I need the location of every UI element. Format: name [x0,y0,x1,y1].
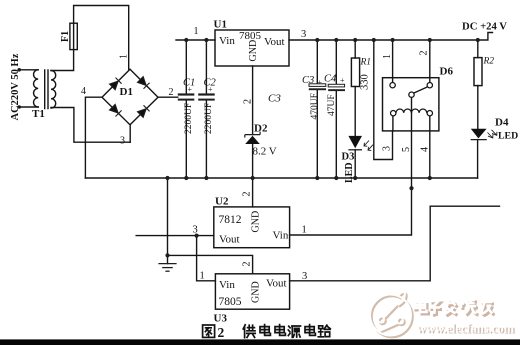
svg-text:D4: D4 [495,117,509,129]
svg-text:7812: 7812 [219,214,242,226]
svg-text:4: 4 [81,86,86,97]
wire U3 Vout output path [290,206,500,281]
wire primary bottom lead [19,106,38,108]
wire bridge node 4 to ground rail [85,97,102,178]
svg-text:F1: F1 [60,31,71,42]
transformer T1 primary winding [34,70,39,107]
电 [416,302,429,315]
wire C3 down to ground rail [316,90,318,178]
wire relay pin 4 down to ground rail [429,116,431,178]
resistor R1 [351,58,359,87]
wire into U1 Vin [176,39,215,41]
capacitor C3 plates [309,84,326,90]
ground rail [85,177,477,179]
bridge rectifier D1 diamond [102,69,158,125]
svg-text:1: 1 [194,26,199,37]
svg-text:1: 1 [119,54,130,59]
node AC input terminal bottom [17,105,21,109]
svg-text:D3: D3 [342,152,355,163]
svg-text:Vin: Vin [219,35,235,47]
watermark text 电子发烧友 (drawn strokes) [414,298,495,316]
capacitor C1 plates [178,93,195,100]
wire U2 Vout to U3 Vin [197,236,216,281]
svg-text:DC +24 V: DC +24 V [462,21,507,33]
svg-text:U1: U1 [214,19,227,31]
svg-text:GND: GND [251,281,262,303]
svg-text:3: 3 [382,146,393,151]
fuse F1 [70,23,77,49]
svg-text:D6: D6 [440,66,454,78]
wire relay pin3 bypass loop to rail [374,40,393,160]
svg-text:+: + [318,78,323,87]
svg-text:LED: LED [498,131,518,142]
char 图 [203,325,215,337]
transformer T1 secondary winding [51,71,56,109]
svg-text:GND: GND [251,211,262,233]
svg-text:3: 3 [302,271,307,282]
svg-text:1: 1 [200,271,205,282]
svg-text:U2: U2 [215,196,229,208]
svg-text:1: 1 [302,225,307,236]
wire bridge node 2 to C1 [158,96,178,98]
regulator U2 7812 box [214,207,290,248]
char 供 [243,325,255,338]
svg-text:2: 2 [169,87,174,98]
wire U2 Vout output [136,235,214,237]
svg-text:+: + [208,85,213,94]
svg-text:AC220V 50 Hz: AC220V 50 Hz [10,53,21,120]
resistor R2 [474,58,482,86]
svg-text:R2: R2 [483,57,495,67]
svg-text:2200UF: 2200UF [184,103,194,134]
svg-text:3: 3 [193,225,198,236]
relay D6 box [383,78,439,131]
bridge diodes D1 [109,76,149,117]
wire C3 riser up [316,40,318,84]
diode D1 top-right 1 to 2 [137,76,149,88]
wire C2 riser up [205,40,207,93]
svg-text:T1: T1 [32,108,45,120]
wire C4 riser up [335,40,337,84]
diode D1 top-left 4 to 1 [109,78,121,90]
wire secondary bottom to bridge node 3 [51,108,130,143]
烧 [461,300,479,316]
svg-text:330: 330 [360,74,371,90]
svg-text:3: 3 [120,136,125,147]
char 源 [288,326,300,337]
wire C2 down to ground rail [205,101,207,178]
svg-text:7805: 7805 [219,296,242,308]
LED D3 [348,136,373,151]
svg-text:2: 2 [419,51,430,56]
wire ground drop [167,178,169,264]
svg-text:Vout: Vout [264,36,285,48]
char 电 [275,325,285,336]
svg-text:D2: D2 [254,123,268,135]
svg-text:4: 4 [420,147,431,152]
op-amp U1 regulator 7805 box [215,30,289,66]
regulator U3 7805 box [215,274,289,309]
relay D6 internals [390,83,433,116]
svg-text:470UF: 470UF [310,93,320,119]
svg-text:2200UF: 2200UF [204,103,214,134]
diode D1 bottom-left 4 to 3 [109,104,121,116]
wire bridge bottom vertex drop [129,125,131,142]
wire output rail DC +24V [289,33,493,41]
svg-text:U3: U3 [214,313,228,325]
wire rail to R2 [477,40,479,58]
svg-text:www.elecfans.com: www.elecfans.com [417,321,515,335]
watermark logo elecfans [370,292,413,337]
zener diode D2 [245,132,260,144]
子 [431,303,443,316]
wire R2 to D4 [477,86,479,129]
transformer T1 core [45,70,48,109]
svg-text:Vout: Vout [219,234,240,246]
wire primary top lead [19,69,38,71]
wire ground to U3 pin 2 [168,255,253,273]
svg-text:8.2 V: 8.2 V [253,146,277,158]
ground symbol [158,264,176,272]
char 路 [318,325,330,337]
wire D3 to ground rail [354,150,356,178]
svg-text:47UF: 47UF [327,94,337,116]
wire D4 riser from ground rail [477,140,479,178]
wire C4 down to ground rail [335,91,337,178]
capacitor C2 plates [198,93,215,100]
char 电 [305,325,315,336]
svg-text:Vin: Vin [219,279,235,291]
wire relay pin 1 from rail [392,40,394,83]
svg-text:+: + [340,76,345,85]
svg-text:Vout: Vout [266,278,287,290]
svg-text:2: 2 [243,99,254,104]
caption 图 2 供电电源电路 (drawn strokes) [203,325,331,338]
svg-text:GND: GND [248,40,259,62]
LED D4 [471,129,497,140]
wire through fuse up and top loop to bridge node 1 [74,6,129,70]
wire secondary top to fuse [51,50,74,71]
wire C1 riser up [185,40,187,93]
wire relay pin 5 common down to U2 Vin [290,97,412,235]
svg-text:LED: LED [344,162,355,183]
svg-text:1: 1 [382,54,393,59]
wire U1 pin2 down to zener D2 [252,66,254,135]
svg-text:2: 2 [218,325,225,340]
char 电 [260,325,270,336]
svg-text:C3: C3 [302,75,314,86]
svg-text:3: 3 [301,29,306,40]
svg-text:C3: C3 [268,93,281,105]
svg-text:D1: D1 [120,86,133,98]
node AC input terminal top [17,68,21,72]
svg-text:5: 5 [401,147,412,152]
wire R1 to D3 [354,87,356,136]
svg-text:+: + [188,85,193,94]
black bar bottom [0,339,520,345]
svg-text:C4: C4 [324,74,337,85]
capacitor C4 plates [328,84,345,91]
wire rail to R1 [354,40,356,58]
diode D1 bottom-right 3 to 2 [137,105,149,117]
svg-text:2: 2 [242,192,253,197]
wire D2 to ground rail and U2 pin 2 riser [252,144,254,207]
watermark url www.elecfans.com [417,321,516,336]
友 [482,301,495,316]
svg-text:R1: R1 [360,58,372,68]
svg-text:Vin: Vin [273,230,289,242]
svg-text:2: 2 [242,262,253,267]
发 [446,302,458,317]
relay switch arm [414,87,427,93]
relay coil [396,109,427,113]
wire relay pin 2 from rail [429,40,431,83]
wire C1 down to ground rail [185,101,187,178]
